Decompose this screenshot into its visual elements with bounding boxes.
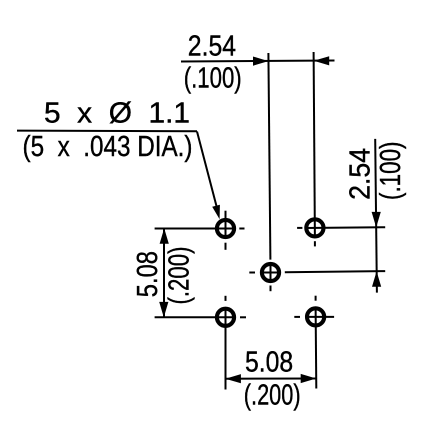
right dimension: down-pointing arrowhead	[372, 212, 381, 228]
hole H2 (top-right)	[297, 52, 385, 246]
hole callout: leader arrowhead	[212, 205, 220, 220]
svg-text:(.200): (.200)	[244, 380, 301, 412]
hole H1 (top-left)	[155, 211, 245, 250]
bottom dimension: left-pointing arrowhead	[225, 374, 241, 383]
svg-text:(.100): (.100)	[184, 63, 242, 95]
left dimension: down-pointing arrowhead	[159, 302, 168, 318]
hole H4 (bottom-left)	[155, 296, 246, 390]
top dimension 2.54 (.100): extension line over middle column	[268, 53, 270, 260]
svg-text:5 x Ø 1.1: 5 x Ø 1.1	[44, 98, 190, 130]
top dimension: right-pointing arrowhead	[253, 57, 268, 66]
hole callout: underline of "5 x Ø 1.1"	[17, 130, 197, 133]
bottom dimension 5.08 (.200): dimension line	[225, 378, 316, 380]
svg-text:2.54: 2.54	[188, 31, 236, 63]
right dimension: up-pointing arrowhead	[372, 271, 381, 287]
hole callout: leader line	[197, 132, 217, 207]
svg-text:5.08: 5.08	[245, 346, 293, 378]
top dimension 2.54 (.100): dimension line	[181, 61, 335, 62]
left dimension: up-pointing arrowhead	[160, 228, 169, 244]
svg-text:5.08: 5.08	[132, 251, 164, 297]
svg-text:(.100): (.100)	[375, 142, 407, 201]
svg-text:(5 x .043 DIA.): (5 x .043 DIA.)	[23, 131, 193, 163]
hole H5 (bottom-right)	[294, 296, 334, 389]
top dimension: left-pointing arrowhead	[314, 56, 330, 65]
hole H3 (middle)	[249, 263, 385, 292]
svg-text:(.200): (.200)	[163, 247, 195, 305]
bottom dimension: right-pointing arrowhead	[301, 374, 317, 383]
left dimension 5.08 (.200): dimension line	[163, 229, 165, 318]
right dimension 2.54 (.100): dimension line	[375, 139, 377, 293]
svg-text:2.54: 2.54	[345, 148, 377, 200]
